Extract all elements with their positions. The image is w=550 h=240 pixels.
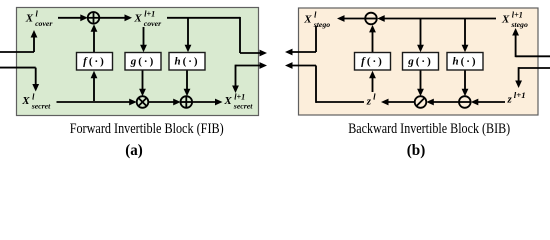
svg-text:cover: cover xyxy=(144,19,162,28)
svg-text:(b): (b) xyxy=(407,142,426,159)
svg-text:stego: stego xyxy=(313,20,331,29)
svg-text:l+1: l+1 xyxy=(144,10,155,19)
svg-text:(a): (a) xyxy=(125,142,143,159)
svg-text:X: X xyxy=(21,95,30,107)
svg-text:Forward Invertible Block (FIB): Forward Invertible Block (FIB) xyxy=(70,121,224,137)
svg-text:l+1: l+1 xyxy=(234,92,245,101)
svg-text:X: X xyxy=(303,14,312,26)
svg-text:X: X xyxy=(133,13,142,25)
svg-text:X: X xyxy=(25,13,34,25)
svg-text:stego: stego xyxy=(510,20,528,29)
svg-text:g(·): g(·) xyxy=(407,56,433,68)
svg-text:g(·): g(·) xyxy=(130,56,156,68)
svg-text:secret: secret xyxy=(233,102,253,111)
svg-text:X: X xyxy=(223,95,232,107)
svg-text:z: z xyxy=(366,95,372,107)
svg-text:z: z xyxy=(507,94,513,106)
svg-text:h(·): h(·) xyxy=(452,56,477,68)
svg-text:X: X xyxy=(501,14,510,26)
svg-text:f(·): f(·) xyxy=(83,56,106,68)
svg-text:l+1: l+1 xyxy=(514,90,526,100)
svg-text:h(·): h(·) xyxy=(174,56,199,68)
svg-text:l+1: l+1 xyxy=(512,11,523,20)
svg-text:cover: cover xyxy=(35,19,53,28)
svg-text:Backward Invertible Block (BIB: Backward Invertible Block (BIB) xyxy=(348,121,510,137)
svg-text:f(·): f(·) xyxy=(361,56,384,68)
svg-text:secret: secret xyxy=(31,102,51,111)
